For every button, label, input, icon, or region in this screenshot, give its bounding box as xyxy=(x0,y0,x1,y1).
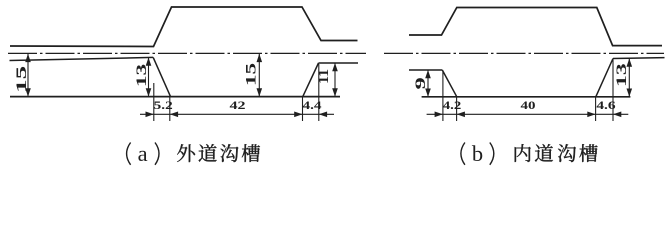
figure (b) groove left wall slant xyxy=(442,70,457,97)
figure (a) right rail surface line xyxy=(319,62,359,64)
figure (a) groove right wall slant xyxy=(303,63,319,97)
svg-text:13: 13 xyxy=(614,63,630,87)
caption (a) character 槽 xyxy=(242,144,260,162)
svg-text:42: 42 xyxy=(230,100,246,112)
caption (b) opening fullwidth paren xyxy=(461,143,465,165)
dimension 11 (a): vertical dimension line with arrows and rotated label xyxy=(316,63,338,97)
svg-text:4.2: 4.2 xyxy=(443,100,462,112)
figure (a) groove left wall slant xyxy=(153,57,170,96)
figure (a) top profile outline: rail with raised plateau xyxy=(10,7,358,47)
dimension 13 (b): vertical dimension line with arrows and rotated label xyxy=(614,59,632,97)
figure (a) left rail surface line (slightly sloped) xyxy=(10,57,154,60)
figure (b) right rail surface line (slightly sloped) xyxy=(613,57,665,60)
figure (b) extension line at groove left wall bottom x=456.6 xyxy=(456,97,458,121)
caption (b) closing fullwidth paren xyxy=(490,143,494,165)
figure (a) horizontal dimension chain line for 5.2 / 42 / 4.4 xyxy=(140,112,334,118)
figure (b) extension line at groove left wall top x=442.9 xyxy=(442,71,444,121)
svg-text:15: 15 xyxy=(14,66,30,93)
figure (b) groove bottom reference line xyxy=(422,96,631,98)
svg-text:15: 15 xyxy=(244,63,260,86)
figure (a) extension line at groove right wall top x=318.8 xyxy=(318,64,320,121)
figure (b) extension line at groove right wall bottom x=595.6 xyxy=(595,97,597,121)
figure (b) extension line at groove right wall top x=613 xyxy=(612,60,614,122)
dimension 9 (b): vertical dimension line with arrows and rotated label xyxy=(413,70,431,97)
dimension 15 centre (a): vertical dimension line with arrows and rotated label xyxy=(244,54,263,97)
svg-text:9: 9 xyxy=(413,77,429,89)
caption (b) character 内 xyxy=(515,144,531,162)
caption (a) character 外 xyxy=(177,144,195,162)
svg-text:5.2: 5.2 xyxy=(154,100,173,112)
caption (a) opening fullwidth paren xyxy=(127,143,131,165)
caption (a) closing fullwidth paren xyxy=(155,143,159,165)
svg-text:4.4: 4.4 xyxy=(303,100,322,112)
figure (a) extension line at groove left wall bottom x=169.8 xyxy=(169,97,171,121)
figure (b) centerline (dash-dot datum line) xyxy=(384,52,664,54)
figure (b) horizontal dimension chain line for 4.2 / 40 / 4.6 xyxy=(427,112,629,118)
figure (b) left rail surface line xyxy=(409,69,442,71)
svg-text:13: 13 xyxy=(134,64,150,87)
dimension 15 left (a): vertical dimension line with arrows and rotated label xyxy=(14,54,31,97)
figure (a) extension line at groove right wall bottom x=302.5 xyxy=(302,97,304,121)
caption (b) character 槽 xyxy=(579,144,597,162)
svg-text:a: a xyxy=(138,141,148,166)
caption (b) character 道 xyxy=(535,144,553,162)
caption (a) character 沟 xyxy=(220,144,238,162)
figure (a) groove bottom reference line xyxy=(10,96,340,98)
dimension 13 (a): vertical dimension line with arrows and rotated label xyxy=(134,58,151,97)
svg-text:b: b xyxy=(472,141,483,166)
caption (b) character 沟 xyxy=(558,144,576,162)
svg-text:4.6: 4.6 xyxy=(596,100,616,112)
caption (a) character 道 xyxy=(199,144,217,162)
figure (a) centerline (dash-dot datum line) xyxy=(8,52,366,54)
svg-text:40: 40 xyxy=(521,100,536,112)
figure (a) extension line at groove left wall top x=153.8 xyxy=(153,83,155,121)
figure (b) groove right wall slant xyxy=(596,59,613,97)
figure (b) top profile outline: rail with raised plateau xyxy=(409,8,662,46)
